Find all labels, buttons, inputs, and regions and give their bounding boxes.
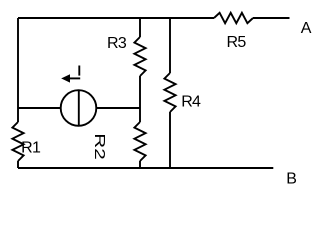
wire left column lower: [17, 161, 19, 168]
resistor R2: [134, 122, 145, 161]
wire middle left: [18, 107, 61, 109]
current source U1 circle: [61, 90, 97, 126]
wire middle column bottom: [139, 161, 141, 168]
wire top rail: [18, 17, 214, 19]
svg-text:R3: R3: [107, 35, 127, 52]
wire node A lead: [253, 17, 290, 19]
current arrow shaft: [69, 77, 81, 79]
resistor R1: [12, 122, 23, 161]
svg-text:R2: R2: [91, 133, 108, 159]
resistor R5: [214, 13, 253, 23]
svg-text:R5: R5: [227, 34, 247, 51]
svg-text:R1: R1: [21, 139, 41, 156]
wire middle column top: [139, 18, 141, 37]
current label I bar: [78, 66, 80, 76]
wire middle column center: [139, 76, 141, 122]
current arrow I head: [62, 75, 69, 82]
wire right column bottom: [169, 112, 171, 168]
svg-text:B: B: [286, 170, 296, 187]
wire middle right: [96, 107, 140, 109]
current source U1 bar: [78, 91, 80, 126]
wire right column top: [169, 18, 171, 73]
svg-text:A: A: [301, 20, 312, 37]
svg-text:R4: R4: [181, 94, 201, 111]
resistor R4: [164, 73, 175, 112]
wire left column upper: [17, 18, 19, 122]
resistor R3: [134, 37, 145, 76]
wire bottom rail: [18, 167, 273, 169]
